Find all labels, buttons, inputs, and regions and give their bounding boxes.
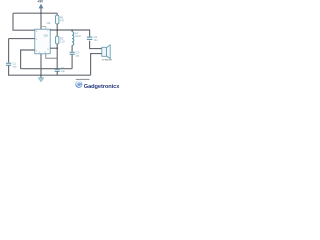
svg-text:cap: cap (61, 70, 66, 73)
ground symbol (40, 75, 42, 78)
wire R2 down to C2 (56, 44, 58, 69)
svg-text:cap: cap (75, 55, 80, 58)
wire pin 5 stub (46, 54, 57, 58)
wire C1 branch vertical (8, 39, 10, 63)
wire pin 1 to ground (40, 54, 42, 75)
node ground junction (40, 74, 42, 76)
capacitor C4 (87, 37, 92, 39)
svg-text:10u: 10u (94, 39, 99, 42)
svg-text:Gadgetronicx: Gadgetronicx (84, 84, 120, 90)
wire pin 7 to R1 R2 junction and C4 (50, 30, 89, 37)
svg-text:2.2K: 2.2K (60, 40, 65, 43)
wire pin 8 stub (40, 13, 42, 29)
op-amp U1 555 IC body (35, 29, 50, 54)
wire left vertical to pin 6 (13, 13, 35, 30)
wire C3 down (71, 55, 73, 69)
power 9V arrow (40, 8, 42, 14)
wire R1 to R2 (56, 24, 58, 36)
inductor L1 (71, 30, 73, 32)
svg-text:cap: cap (13, 65, 18, 68)
logo smudge line (76, 78, 90, 80)
wire C1 to ground rail (9, 66, 91, 75)
wire pin 4 stub (41, 26, 46, 29)
node pin7 junction (56, 29, 58, 31)
node C2 junction (56, 68, 58, 70)
wire L1 to C3 (71, 45, 73, 51)
wire pin 2 trigger from left (9, 38, 35, 40)
svg-text:SPEAKER: SPEAKER (102, 59, 113, 62)
speaker SP1 (102, 47, 107, 56)
svg-text:10mH: 10mH (75, 35, 82, 38)
capacitor C1 (6, 63, 11, 65)
resistor R2 (56, 36, 59, 44)
capacitor C3 (70, 52, 75, 54)
wire C4 to speaker top (90, 41, 102, 49)
wire pin 2 lower loop (21, 50, 35, 69)
wire speaker bottom to rail (91, 54, 102, 76)
wire pin 3 output (50, 47, 57, 49)
wire top rail (13, 12, 57, 14)
capacitor C2 (55, 69, 60, 71)
svg-text:555: 555 (44, 34, 49, 38)
svg-text:U1: U1 (47, 21, 51, 25)
node pin3 junction (56, 47, 58, 49)
svg-text:+9V: +9V (37, 0, 44, 4)
svg-text:47K: 47K (60, 20, 65, 23)
logo icon (75, 81, 82, 88)
wire net lower horizontal (21, 68, 73, 70)
resistor R1 (56, 13, 58, 15)
node VCC junction (40, 12, 42, 14)
node coil junction (71, 29, 73, 31)
